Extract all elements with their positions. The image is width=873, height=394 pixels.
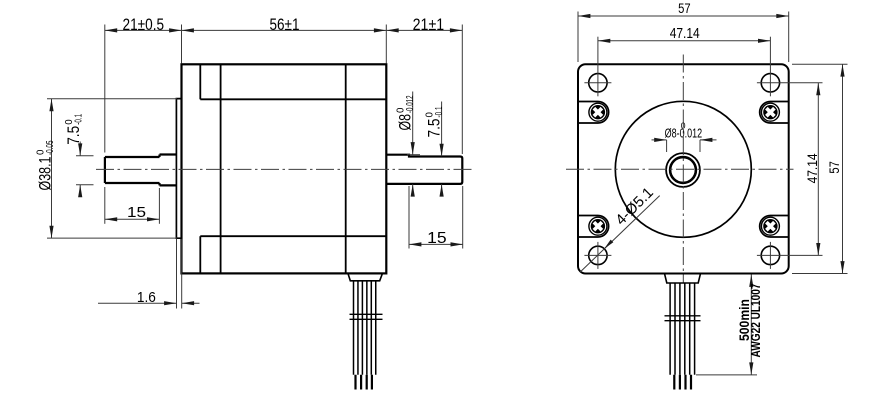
chamfer step vertical bottom [199,236,201,273]
left shaft [105,155,176,186]
dim Ø8 right shaft diameter (left view) [407,154,420,156]
tie-rod screw top-left [589,103,607,121]
svg-text:15: 15 [127,204,146,221]
svg-text:1.6: 1.6 [137,289,156,306]
wire ends right view [674,375,691,390]
svg-text:-0.1: -0.1 [74,114,85,125]
dim 7.5 right shaft flat (left view) [441,102,443,157]
dim 56±1 [182,29,387,31]
svg-text:-0.05: -0.05 [45,140,56,155]
front end-cap divider [220,64,222,273]
cable gland right view [665,274,701,283]
dim 47.14 right [817,83,819,256]
wire ends left view [356,375,372,390]
mounting hole top-left [589,74,607,92]
lead wire bundle right view [670,283,695,375]
svg-text:47.14: 47.14 [804,153,820,183]
dim 21±0.5 [105,29,182,31]
svg-text:56±1: 56±1 [270,16,300,34]
leader 4-Ø5.1 [580,196,660,272]
shaft bore Ø8 [670,157,696,183]
dim 21±1 [386,29,462,31]
svg-text:AWG22 UL1007: AWG22 UL1007 [748,284,763,358]
svg-text:57: 57 [678,1,691,16]
centerline vertical right view [682,55,684,284]
extension line shaft tip right [461,25,463,155]
sleeve band left view [350,314,383,319]
tie-rod screw capsule bottom-left [578,216,609,238]
extension line body front top [181,25,183,64]
mounting hole top-right [761,74,779,92]
dim 15 left shaft [104,187,106,224]
centerline left view [96,168,472,170]
chamfer step vertical top [199,64,201,99]
dim Ø8 bore (right view) [666,140,668,152]
dim 500min wire length [696,374,757,376]
centerline horizontal right view [566,168,794,170]
svg-text:-0.012: -0.012 [405,96,416,114]
dim 15 right shaft [408,186,410,249]
svg-text:7.5: 7.5 [65,126,83,145]
sleeve band right view [665,316,701,321]
right shaft [386,155,462,184]
svg-text:57: 57 [827,161,842,174]
dim 1.6 boss thickness [176,239,178,309]
svg-text:-0.1: -0.1 [434,107,445,118]
svg-text:47.14: 47.14 [670,25,700,42]
tie-rod screw bottom-right [761,217,779,235]
pilot circle Ø38.1 [615,101,751,237]
dim 47.14 top [598,40,771,42]
tie-rod screw top-right [761,103,779,121]
rear end-cap divider [345,64,347,273]
dim 57 top [578,15,789,17]
svg-text:Ø38.1: Ø38.1 [37,157,55,191]
svg-text:0: 0 [681,121,686,131]
svg-text:21±0.5: 21±0.5 [123,16,165,34]
svg-text:21±1: 21±1 [413,16,445,34]
tie-rod screw capsule top-right [760,102,789,124]
mounting hole bottom-left [589,246,607,264]
dim Ø38.1 boss diameter [47,98,177,100]
flange square [578,64,789,273]
extension lines 57 right [792,63,848,65]
shaft boss circle [666,153,700,187]
svg-text:7.5: 7.5 [426,119,444,138]
lead wire bundle left view [354,281,376,375]
tie-rod screw bottom-left [589,217,607,235]
tie-rod screw capsule bottom-right [760,216,789,238]
svg-text:15: 15 [427,230,447,247]
motor body outline [182,64,387,273]
extension line body rear top [385,25,387,64]
bottom chamfer line [200,235,386,237]
top chamfer line [200,98,386,100]
front pilot boss Ø38.1x1.6 [176,99,181,239]
mounting hole bottom-right [761,246,779,264]
extension line shaft tip left [104,25,106,153]
cable gland left view [348,274,382,281]
dim 7.5 left shaft flat [76,155,94,157]
svg-text:Ø8: Ø8 [397,114,415,131]
dim 57 right [842,64,844,273]
extension lines 57 top [577,12,579,63]
tie-rod screw capsule top-left [578,102,609,124]
